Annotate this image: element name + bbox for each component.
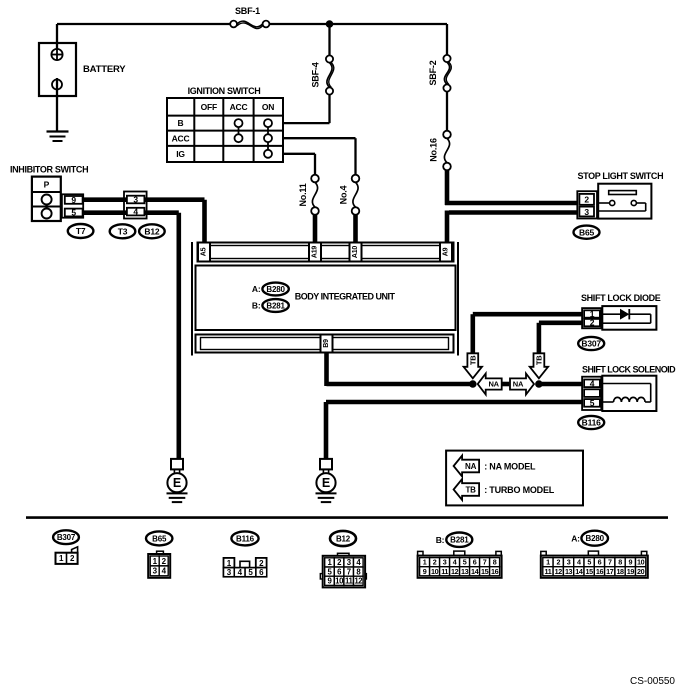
svg-text:11: 11 (441, 567, 448, 576)
svg-text:B65: B65 (152, 534, 167, 543)
svg-text:T7: T7 (76, 226, 86, 236)
svg-text:2: 2 (556, 558, 560, 567)
svg-text:6: 6 (598, 558, 602, 567)
svg-text:7: 7 (347, 567, 351, 576)
svg-text:B:: B: (252, 301, 261, 311)
svg-text:B116: B116 (582, 418, 602, 428)
svg-text:A19: A19 (312, 246, 319, 259)
svg-text:3: 3 (227, 568, 232, 577)
svg-text:SBF-2: SBF-2 (428, 60, 438, 85)
svg-text:10: 10 (637, 558, 645, 567)
svg-text:B: B (178, 118, 184, 128)
svg-text:1: 1 (546, 558, 550, 567)
svg-text:SBF-4: SBF-4 (311, 62, 321, 87)
svg-text:5: 5 (587, 558, 591, 567)
svg-text:14: 14 (575, 567, 583, 576)
svg-text:B307: B307 (57, 533, 76, 542)
svg-text:ACC: ACC (172, 133, 190, 143)
svg-text:SHIFT LOCK DIODE: SHIFT LOCK DIODE (581, 293, 661, 303)
svg-text:20: 20 (637, 567, 645, 576)
svg-text:2: 2 (584, 195, 589, 205)
svg-text:19: 19 (627, 567, 635, 576)
svg-text:10: 10 (335, 577, 344, 586)
svg-text:B65: B65 (579, 227, 594, 237)
svg-text:11: 11 (345, 577, 354, 586)
svg-text:3: 3 (133, 195, 138, 205)
svg-text:8: 8 (493, 558, 497, 567)
svg-text:BODY INTEGRATED UNIT: BODY INTEGRATED UNIT (295, 292, 396, 302)
svg-text:B12: B12 (336, 534, 351, 543)
svg-text:1: 1 (227, 559, 232, 568)
svg-text:INHIBITOR SWITCH: INHIBITOR SWITCH (10, 165, 88, 175)
svg-text:16: 16 (596, 567, 604, 576)
svg-text:10: 10 (431, 567, 439, 576)
svg-text:8: 8 (618, 558, 622, 567)
svg-text:ACC: ACC (230, 102, 248, 112)
svg-text:No.11: No.11 (298, 183, 308, 206)
svg-text:NA: NA (513, 380, 524, 389)
svg-text:B280: B280 (586, 534, 605, 543)
svg-text:13: 13 (461, 567, 469, 576)
svg-text:16: 16 (491, 567, 499, 576)
svg-text:STOP LIGHT SWITCH: STOP LIGHT SWITCH (578, 171, 664, 181)
svg-text:4: 4 (577, 558, 581, 567)
svg-text:4: 4 (453, 558, 457, 567)
svg-text:3: 3 (443, 558, 447, 567)
svg-text:BATTERY: BATTERY (83, 64, 126, 75)
svg-text:B:: B: (436, 535, 445, 545)
svg-text:12: 12 (354, 577, 363, 586)
svg-text:4: 4 (238, 568, 243, 577)
svg-text:4: 4 (133, 207, 138, 217)
svg-text:B12: B12 (144, 226, 159, 236)
svg-text:TB: TB (468, 355, 477, 365)
svg-text:15: 15 (481, 567, 489, 576)
svg-text:No.16: No.16 (429, 138, 439, 162)
svg-text:14: 14 (471, 567, 479, 576)
svg-text:B116: B116 (236, 534, 255, 543)
svg-text:9: 9 (629, 558, 633, 567)
svg-text:9: 9 (71, 195, 76, 205)
svg-text:7: 7 (483, 558, 487, 567)
svg-text:SHIFT LOCK SOLENOID: SHIFT LOCK SOLENOID (582, 365, 676, 375)
svg-text:5: 5 (71, 207, 76, 217)
svg-text:3: 3 (567, 558, 571, 567)
svg-text:5: 5 (590, 398, 595, 408)
svg-text:2: 2 (590, 318, 595, 328)
svg-text:6: 6 (473, 558, 477, 567)
svg-text:NA: NA (488, 380, 499, 389)
svg-text:A10: A10 (352, 246, 359, 259)
svg-text:SBF-1: SBF-1 (235, 6, 260, 16)
svg-text:T3: T3 (118, 226, 128, 236)
svg-text:2: 2 (259, 559, 264, 568)
svg-text:P: P (44, 180, 50, 190)
svg-text:No.4: No.4 (339, 185, 349, 204)
svg-text:9: 9 (423, 567, 427, 576)
svg-text:A:: A: (571, 533, 580, 543)
svg-text:4: 4 (590, 378, 595, 388)
svg-text:IG: IG (176, 149, 185, 159)
svg-text:7: 7 (608, 558, 612, 567)
svg-text:B280: B280 (266, 285, 285, 294)
svg-text:B281: B281 (450, 536, 469, 545)
svg-text:CS-00550: CS-00550 (630, 676, 675, 687)
svg-text:B9: B9 (323, 339, 330, 348)
svg-text:17: 17 (606, 567, 614, 576)
svg-text:11: 11 (545, 567, 552, 576)
svg-text:A:: A: (252, 284, 261, 294)
svg-text:1: 1 (423, 558, 427, 567)
svg-text:A9: A9 (443, 247, 450, 256)
svg-text:E: E (173, 476, 181, 490)
svg-text:12: 12 (555, 567, 563, 576)
svg-text:: TURBO MODEL: : TURBO MODEL (484, 485, 555, 495)
svg-text:: NA MODEL: : NA MODEL (484, 461, 536, 471)
svg-text:IGNITION SWITCH: IGNITION SWITCH (188, 86, 261, 96)
svg-text:13: 13 (565, 567, 573, 576)
svg-text:B307: B307 (581, 339, 601, 349)
svg-text:B281: B281 (266, 301, 285, 310)
svg-text:3: 3 (584, 207, 589, 217)
svg-text:2: 2 (433, 558, 437, 567)
svg-text:TB: TB (465, 485, 476, 494)
svg-text:12: 12 (451, 567, 459, 576)
svg-text:6: 6 (259, 568, 264, 577)
svg-text:NA: NA (465, 462, 477, 471)
svg-text:OFF: OFF (201, 102, 217, 112)
svg-text:18: 18 (616, 567, 624, 576)
svg-text:A5: A5 (201, 247, 208, 256)
svg-text:5: 5 (463, 558, 467, 567)
svg-text:E: E (322, 476, 330, 490)
svg-text:ON: ON (262, 102, 274, 112)
svg-text:15: 15 (586, 567, 594, 576)
svg-text:TB: TB (534, 355, 543, 365)
